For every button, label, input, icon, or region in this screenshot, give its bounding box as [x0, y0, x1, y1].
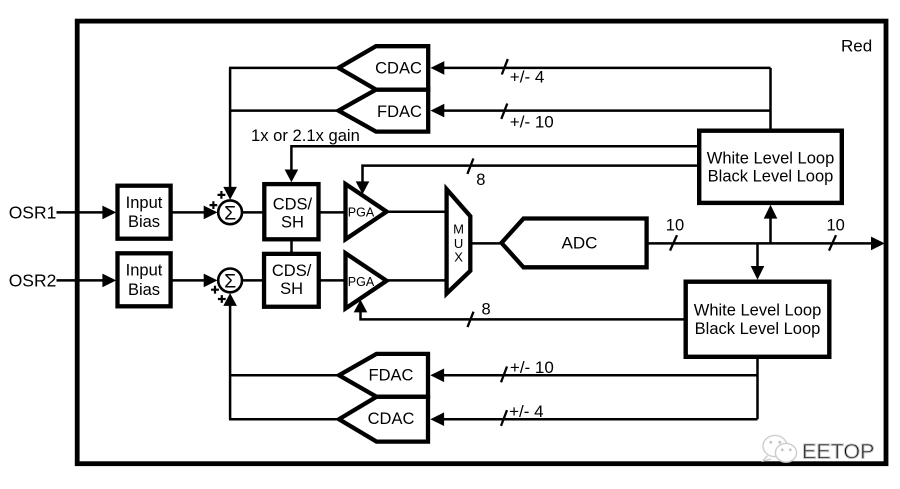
- svg-text:FDAC: FDAC: [369, 366, 414, 384]
- block White Level Loop / Black Level Loop U6: [686, 282, 830, 357]
- wire feedback to CDAC D4: [430, 412, 757, 426]
- wire CDS/SH U2 to PGA A1: [319, 211, 344, 214]
- dac CDAC D1: [339, 46, 429, 89]
- svg-text:8: 8: [476, 171, 485, 189]
- svg-text:8: 8: [482, 301, 491, 319]
- dac FDAC D3: [339, 354, 428, 397]
- svg-text:X: X: [454, 250, 463, 265]
- wire PGA A1 to MUX: [388, 210, 446, 213]
- wire feedback to FDAC D3: [430, 369, 757, 383]
- wire output to White Level Loop U6 (down arrow): [751, 243, 765, 279]
- svg-text:Bias: Bias: [128, 213, 160, 231]
- svg-text:OSR1: OSR1: [9, 203, 57, 223]
- plus sign at summer S2 left input: [211, 286, 219, 294]
- wire feedback to CDAC D1: [431, 61, 771, 75]
- svg-text:Input: Input: [126, 194, 163, 212]
- bus slash on FDAC D2 wire: [501, 104, 507, 119]
- svg-text:Σ: Σ: [224, 202, 236, 224]
- block CDS/SH U2: [264, 184, 318, 239]
- bus slash on ADC output right: [829, 235, 836, 250]
- svg-text:White Level Loop: White Level Loop: [707, 149, 835, 167]
- amplifier PGA A1: [346, 184, 387, 239]
- svg-text:ADC: ADC: [562, 233, 598, 252]
- bus slash on U5-PGA wire: [467, 159, 473, 174]
- bus slash on CDAC D1 wire: [502, 59, 508, 74]
- wire OSR2 to Input Bias U3: [57, 274, 117, 288]
- svg-text:EETOP: EETOP: [802, 440, 875, 464]
- bus slash on ADC output left: [670, 235, 677, 250]
- svg-text:CDS/: CDS/: [272, 262, 312, 280]
- wire PGA A2 to MUX: [388, 279, 446, 282]
- wire between CDS/SH U2 and CDS/SH U4: [290, 240, 293, 253]
- svg-text:CDAC: CDAC: [368, 410, 415, 428]
- plus sign at summer S1 top input: [218, 191, 226, 199]
- svg-text:CDAC: CDAC: [375, 59, 422, 77]
- wire CDAC D1 to summer S1: [229, 67, 336, 70]
- svg-text:White Level Loop: White Level Loop: [694, 302, 822, 320]
- wire U5 to PGA A1 (8-bit): [356, 166, 697, 195]
- watermark logo bubbles: [763, 435, 797, 462]
- plus sign at summer S2 bottom input: [218, 295, 226, 303]
- svg-text:PGA: PGA: [348, 275, 375, 289]
- wire U6 down to DAC lines: [756, 356, 759, 419]
- converter ADC: [502, 219, 647, 268]
- wire summer S2 to CDS/SH U4: [242, 279, 265, 282]
- svg-text:CDS/: CDS/: [273, 196, 313, 214]
- svg-text:1x or 2.1x gain: 1x or 2.1x gain: [251, 126, 360, 145]
- wire summer S1 to CDS/SH U2: [242, 211, 263, 214]
- watermark logo eyes: [769, 441, 791, 451]
- svg-text:FDAC: FDAC: [377, 103, 422, 121]
- wire Input Bias U1 to summer S1: [171, 206, 218, 220]
- svg-text:Input: Input: [126, 262, 163, 280]
- block CDS/SH U4: [264, 254, 319, 307]
- svg-text:Black Level Loop: Black Level Loop: [695, 320, 821, 338]
- amplifier PGA A2: [346, 253, 387, 308]
- bus slash on FDAC D3 wire: [501, 367, 507, 383]
- summer S2: [218, 269, 242, 293]
- wire U5 up to DAC lines: [769, 68, 772, 129]
- bus slash on U6-PGA wire: [468, 312, 474, 327]
- wire CDS/SH U4 to PGA A2: [320, 279, 344, 282]
- wire MUX to ADC: [471, 242, 500, 245]
- multiplexer MUX: [447, 189, 471, 293]
- svg-text:10: 10: [666, 217, 684, 235]
- svg-text:Red: Red: [841, 36, 872, 55]
- svg-text:10: 10: [827, 217, 845, 235]
- svg-text:OSR2: OSR2: [9, 271, 57, 291]
- wire DAC junction up to summer S2: [223, 293, 237, 419]
- bus slash on CDAC D4 wire: [501, 410, 507, 426]
- svg-text:+/- 10: +/- 10: [510, 113, 554, 132]
- wire FDAC D3 to summer S2: [229, 374, 338, 377]
- wire U6 to PGA A2 (8-bit): [354, 300, 685, 320]
- wire DAC junction down to summer S1: [223, 68, 237, 200]
- svg-text:Σ: Σ: [224, 270, 236, 292]
- dac FDAC D2: [339, 90, 429, 132]
- summer S1: [218, 200, 242, 224]
- dac CDAC D4: [339, 397, 428, 442]
- svg-text:Black Level Loop: Black Level Loop: [708, 168, 834, 186]
- svg-text:PGA: PGA: [348, 206, 375, 220]
- wire feedback to FDAC D2: [431, 104, 771, 118]
- wire output to White Level Loop U5 (up arrow): [764, 205, 778, 244]
- block White Level Loop / Black Level Loop U5: [699, 131, 842, 203]
- svg-text:SH: SH: [281, 213, 304, 231]
- wire FDAC D2 to summer S1: [229, 109, 337, 112]
- svg-text:+/- 4: +/- 4: [510, 67, 545, 86]
- svg-text:M: M: [453, 222, 464, 237]
- svg-text:+/- 4: +/- 4: [509, 402, 543, 421]
- wire U5 gain control to CDS/SH U2: [285, 146, 697, 182]
- wire Input Bias U3 to summer S2: [171, 274, 218, 288]
- wire CDAC D4 to summer S2: [229, 418, 338, 421]
- block Input Bias U3: [118, 253, 171, 306]
- wire ADC output to right edge: [648, 237, 885, 251]
- wire OSR1 to Input Bias U1: [57, 206, 117, 220]
- block Input Bias U1: [118, 186, 171, 239]
- svg-text:+/- 10: +/- 10: [510, 358, 554, 377]
- svg-text:SH: SH: [280, 280, 303, 298]
- svg-text:Bias: Bias: [128, 281, 160, 299]
- plus sign at summer S1 left input: [210, 201, 218, 209]
